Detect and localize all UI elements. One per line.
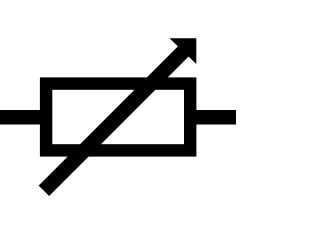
wire: left lead	[0, 110, 46, 125]
resistor body (variable resistor R)	[46, 84, 190, 151]
wiper arrow head	[170, 38, 197, 64]
wire: right lead	[190, 110, 236, 125]
wiper arrow shaft	[44, 51, 184, 191]
